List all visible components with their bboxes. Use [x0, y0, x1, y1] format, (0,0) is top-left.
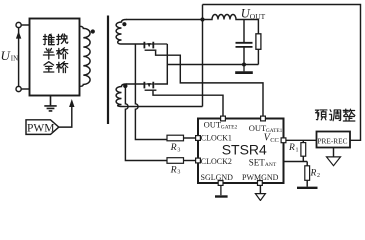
resistor R3 lower (CLOCK2) box	[167, 158, 184, 164]
arrow into bridge box bottom	[69, 99, 74, 107]
ground PWMGND (open arrow)	[259, 185, 261, 193]
resistor R1 top lead	[302, 140, 304, 142]
capacitor C output bottom lead	[243, 47, 245, 65]
svg-text:3: 3	[177, 147, 180, 153]
node A junction dot (CLOCK2 sense tap)	[123, 84, 127, 88]
wire Q1 drain from top secondary bottom	[121, 43, 144, 45]
capacitor C output top lead	[243, 20, 245, 43]
pin SGLGND square	[218, 181, 223, 186]
resistor R3 upper (CLOCK1) box	[167, 135, 184, 141]
pin CLOCK2 square	[196, 158, 201, 163]
svg-text:CC: CC	[270, 137, 279, 144]
svg-text:PWM: PWM	[27, 122, 54, 134]
wire Q1 gate to OUT_GATE1 pin	[156, 51, 263, 116]
ground PRE-REC (open arrow)	[333, 148, 335, 157]
resistor R1 box	[301, 143, 306, 157]
svg-text:GATE2: GATE2	[221, 124, 238, 130]
wire top secondary top to output node	[126, 19, 203, 21]
wire R3 upper to CLOCK1 pin	[184, 137, 196, 139]
transistor Q1 (top sync MOSFET)	[144, 42, 168, 51]
transformer core	[107, 16, 109, 125]
pin CLOCK1 square	[196, 136, 201, 141]
wire CLOCK1 sense vertical with hop	[135, 44, 167, 140]
svg-text:R: R	[170, 142, 177, 153]
svg-text:PRE-REC: PRE-REC	[318, 137, 348, 146]
wire U_IN vertical between terminals	[18, 28, 20, 87]
wire Q1 source down to Q2 source	[155, 44, 167, 84]
pin VCC square	[281, 138, 286, 143]
label 全桥	[44, 62, 54, 72]
resistor R2 bottom lead	[306, 181, 308, 187]
wire top terminal to bridge box	[21, 24, 29, 26]
svg-text:2: 2	[317, 173, 320, 179]
wire top loop to pre-regulator	[203, 5, 361, 141]
svg-text:R: R	[170, 164, 177, 175]
svg-text:SGLGND: SGLGND	[201, 173, 234, 182]
resistor R load box	[256, 34, 261, 50]
pin OUT_GATE1 square	[261, 116, 266, 121]
svg-text:IN: IN	[11, 55, 18, 63]
svg-text:OUT: OUT	[204, 120, 222, 130]
ground divider	[297, 187, 318, 189]
PWM tag	[26, 120, 59, 135]
bridge converter box	[30, 19, 80, 96]
pre-regulator PRE-REC box	[317, 132, 351, 148]
secondary top polarity dot	[122, 22, 126, 26]
resistor R1 bottom lead	[302, 156, 304, 161]
svg-text:ANT: ANT	[265, 162, 277, 168]
wire bottom secondary bottom to node vertical	[121, 106, 203, 108]
node output return junction dot	[242, 63, 246, 67]
ground output return	[236, 65, 253, 73]
node switching junction dot	[200, 17, 204, 21]
transistor Q2 (bottom sync MOSFET)	[144, 82, 157, 91]
wire bottom terminal to bridge box	[21, 88, 29, 90]
secondary winding top	[116, 19, 126, 44]
primary polarity dot	[91, 29, 95, 33]
transformer primary winding	[80, 26, 91, 86]
resistor R2 top lead	[306, 162, 308, 166]
pin PWMGND square	[258, 181, 263, 186]
svg-text:PWMGND: PWMGND	[242, 173, 279, 182]
svg-text:3: 3	[177, 170, 180, 176]
wire SET pin to divider junction	[284, 161, 308, 163]
wire PWM to bridge box	[59, 107, 72, 128]
label 半桥	[43, 48, 54, 59]
label 推挽	[43, 34, 54, 45]
svg-text:CLOCK2: CLOCK2	[201, 157, 232, 166]
svg-text:OUT: OUT	[250, 12, 266, 21]
ground SGLGND	[220, 185, 222, 195]
U_IN arrow up	[16, 31, 21, 39]
input terminal - (bottom-left circle)	[16, 86, 21, 91]
wire CLOCK2 sense vertical with hop	[125, 84, 167, 161]
svg-text:1: 1	[296, 148, 299, 154]
input terminal + (top-left circle)	[16, 22, 21, 27]
inductor L output	[203, 15, 259, 34]
ground (earth) under bridge box	[44, 96, 56, 111]
svg-text:R: R	[310, 169, 317, 179]
label 预调整	[315, 110, 327, 120]
resistor R2 box	[305, 166, 310, 181]
wire R3 lower to CLOCK2 pin	[184, 160, 196, 162]
wire VCC to pre-regulator	[286, 139, 317, 141]
op-amp U1 STSR4 controller box	[198, 119, 284, 184]
svg-text:STSR4: STSR4	[222, 142, 267, 158]
wire Q2 drain from bottom secondary top	[126, 83, 144, 85]
wire Q2 gate to OUT_GATE2 pin	[153, 91, 223, 116]
resistor R load bottom lead	[257, 49, 259, 64]
svg-text:R: R	[288, 143, 295, 153]
capacitor C output plates	[236, 43, 253, 47]
wire switching node vertical	[202, 5, 204, 107]
svg-text:SET: SET	[249, 157, 266, 167]
pin OUT_GATE2 square	[221, 116, 226, 121]
secondary winding bottom	[116, 84, 126, 107]
wire output return rail	[167, 64, 258, 66]
